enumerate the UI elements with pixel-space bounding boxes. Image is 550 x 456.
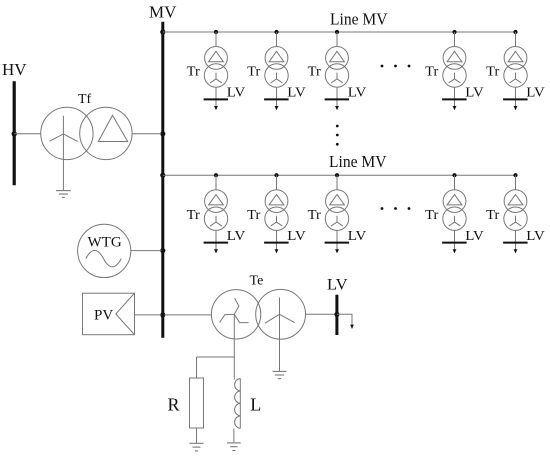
svg-text:Tr: Tr: [247, 65, 261, 80]
transformer Tr1-4 primary winding (delta): [443, 47, 466, 70]
ellipsis dots feeder 1: [381, 65, 411, 68]
photovoltaic PV inverter box: [83, 293, 135, 335]
junction node Tr1-1 on line: [214, 30, 218, 34]
load arrow of Tr2-5: [514, 249, 518, 253]
junction node Tr1-2 on line: [274, 30, 278, 34]
inductor L coil: [235, 379, 241, 429]
transformer Tr2-4 primary winding (delta): [443, 190, 466, 213]
node MV bus / PV and Te: [160, 312, 165, 317]
load arrow at LV bus: [350, 325, 354, 329]
transformer Tr1-5 secondary winding (wye): [504, 64, 527, 87]
wire from line to transformer Tr1-3: [336, 32, 338, 47]
wire from line to transformer Tr2-5: [515, 175, 517, 190]
wire down to resistor R: [196, 357, 198, 378]
wire MV bus to Te: [164, 314, 211, 316]
svg-text:Tr: Tr: [486, 65, 500, 80]
load arrow of Tr1-3: [335, 106, 339, 110]
svg-text:R: R: [168, 394, 180, 414]
MV busbar: [161, 22, 164, 338]
svg-text:Tr: Tr: [308, 208, 322, 223]
load arrow of Tr1-5: [514, 106, 518, 110]
load arrow of Tr1-4: [453, 106, 457, 110]
feeder line 2 (Line MV): [163, 174, 516, 176]
svg-text:Tr: Tr: [425, 208, 439, 223]
node MV bus / line 1: [160, 29, 165, 34]
HV busbar: [13, 81, 16, 185]
junction node Tr2-3 on line: [335, 173, 339, 177]
junction node Tr2-4 on line: [452, 173, 456, 177]
transformer Tr2-1 primary winding (delta): [205, 190, 228, 213]
LV busbar of Tr1-5: [503, 98, 527, 100]
transformer Tf primary circle (wye): [41, 107, 93, 159]
ellipsis dots feeder 2: [381, 207, 411, 210]
load arrow of Tr2-3: [335, 249, 339, 253]
wire transformer Tr2-2 to LV bar and load arrow: [276, 230, 278, 250]
Tf neutral wire to ground: [62, 134, 64, 191]
node MV bus / Tf: [160, 131, 165, 136]
wire resistor R to ground: [196, 428, 198, 443]
svg-text:LV: LV: [526, 228, 545, 243]
transformer Tr2-5 secondary winding (wye): [504, 207, 527, 230]
svg-text:LV: LV: [348, 228, 367, 243]
transformer Tr2-1 secondary winding (wye): [204, 207, 227, 230]
LV busbar of Tr2-1: [204, 242, 229, 244]
junction node Tr1-4 on line: [452, 30, 456, 34]
load arrow of Tr2-2: [275, 249, 279, 253]
svg-text:LV: LV: [227, 85, 246, 100]
junction node Tr2-2 on line: [274, 173, 278, 177]
LV busbar of Tr2-4: [442, 242, 467, 244]
LV busbar of Tr1-1: [204, 98, 229, 100]
wire WTG to MV bus: [131, 250, 162, 252]
node MV bus / WTG: [160, 248, 165, 253]
svg-text:WTG: WTG: [88, 234, 122, 250]
LV busbar of Tr2-3: [325, 242, 350, 244]
svg-text:HV: HV: [2, 60, 27, 79]
svg-text:LV: LV: [327, 276, 348, 293]
wire from line to transformer Tr1-2: [276, 32, 278, 47]
LV busbar of Tr1-4: [442, 98, 467, 100]
junction node Tr1-3 on line: [335, 30, 339, 34]
feeder line 1 (Line MV): [163, 31, 516, 33]
wire Tf to MV bus: [132, 133, 161, 135]
svg-text:PV: PV: [94, 307, 113, 323]
transformer Tr2-3 secondary winding (wye): [325, 207, 348, 230]
transformer Tr2-2 secondary winding (wye): [265, 207, 288, 230]
wire from line to transformer Tr1-5: [515, 32, 517, 47]
transformer Tr1-3 primary winding (delta): [326, 47, 349, 70]
svg-text:MV: MV: [149, 3, 177, 22]
transformer Tf secondary circle (delta): [80, 107, 132, 159]
svg-text:Tr: Tr: [425, 65, 439, 80]
svg-text:Te: Te: [250, 274, 264, 289]
transformer Tr1-2 secondary winding (wye): [265, 64, 288, 87]
LV busbar of Tr2-2: [264, 242, 289, 244]
transformer Tr2-4 secondary winding (wye): [443, 207, 466, 230]
vertical ellipsis between feeders: [336, 125, 339, 146]
ground Te neutral: [273, 371, 287, 378]
wire transformer Tr2-1 to LV bar and load arrow: [215, 230, 217, 250]
transformer Tr1-3 secondary winding (wye): [325, 64, 348, 87]
svg-text:LV: LV: [465, 228, 484, 243]
wire transformer Tr2-5 to LV bar and load arrow: [515, 230, 517, 250]
Te secondary neutral wire to ground: [279, 314, 281, 371]
LV busbar of Tr2-5: [503, 242, 527, 244]
transformer Tr2-3 primary winding (delta): [326, 190, 349, 213]
wire transformer Tr1-1 to LV bar and load arrow: [215, 87, 217, 107]
wire from line to transformer Tr2-1: [215, 175, 217, 190]
transformer Tr2-2 primary winding (delta): [265, 190, 288, 213]
wire LV bus to load arrow: [337, 314, 352, 325]
wire from line to transformer Tr1-4: [454, 32, 456, 47]
wire inductor L to ground: [233, 429, 235, 443]
LV busbar: [335, 295, 338, 335]
wire transformer Tr2-4 to LV bar and load arrow: [454, 230, 456, 250]
wire transformer Tr1-2 to LV bar and load arrow: [276, 87, 278, 107]
wire PV to MV bus: [135, 314, 161, 316]
svg-text:Tr: Tr: [247, 208, 261, 223]
wire from line to transformer Tr2-4: [454, 175, 456, 190]
svg-text:LV: LV: [227, 228, 246, 243]
svg-text:Tf: Tf: [78, 92, 92, 107]
svg-text:LV: LV: [287, 228, 306, 243]
load arrow of Tr2-4: [453, 249, 457, 253]
node on HV bus: [12, 131, 17, 136]
wire HV bus to Tf: [14, 133, 41, 135]
wire Te to LV bus: [306, 313, 336, 315]
transformer Te secondary circle (wye): [256, 289, 306, 339]
LV busbar of Tr1-2: [264, 98, 289, 100]
svg-text:Tr: Tr: [486, 208, 500, 223]
LV busbar of Tr1-3: [325, 98, 350, 100]
transformer Tr1-4 secondary winding (wye): [443, 64, 466, 87]
transformer Tr1-1 secondary winding (wye): [204, 64, 227, 87]
wire transformer Tr1-3 to LV bar and load arrow: [336, 87, 338, 107]
svg-text:Tr: Tr: [187, 65, 201, 80]
node MV bus / line 2: [160, 173, 165, 178]
svg-text:LV: LV: [287, 85, 306, 100]
transformer Tr1-1 primary winding (delta): [205, 47, 228, 70]
ground Tf neutral: [56, 191, 71, 198]
wire transformer Tr1-5 to LV bar and load arrow: [515, 87, 517, 107]
node LV bus: [334, 312, 339, 317]
svg-text:Line MV: Line MV: [329, 152, 387, 171]
svg-text:LV: LV: [526, 85, 545, 100]
wire from line to transformer Tr2-3: [336, 175, 338, 190]
transformer Tr1-2 primary winding (delta): [265, 47, 288, 70]
svg-text:L: L: [250, 394, 261, 414]
transformer Te primary circle (zigzag): [211, 290, 260, 339]
junction node Tr2-1 on line: [214, 173, 218, 177]
wire transformer Tr1-4 to LV bar and load arrow: [454, 87, 456, 107]
svg-text:Tr: Tr: [187, 208, 201, 223]
junction node Tr2-5 on line: [513, 173, 517, 177]
junction node Tr1-5 on line: [513, 30, 517, 34]
ground below R: [190, 443, 204, 451]
load arrow of Tr1-2: [275, 106, 279, 110]
wire filter junction down to inductor L: [233, 357, 235, 380]
wire filter top horizontal: [197, 356, 235, 358]
svg-text:Tr: Tr: [308, 65, 322, 80]
svg-text:LV: LV: [348, 85, 367, 100]
ground below L: [227, 443, 241, 451]
svg-text:Line MV: Line MV: [330, 10, 388, 29]
load arrow of Tr2-1: [214, 249, 218, 253]
transformer Tr2-5 primary winding (delta): [504, 190, 527, 213]
wire transformer Tr2-3 to LV bar and load arrow: [336, 230, 338, 250]
wind turbine generator WTG: [78, 224, 131, 277]
wire from line to transformer Tr1-1: [215, 32, 217, 47]
transformer Tr1-5 primary winding (delta): [504, 47, 527, 70]
load arrow of Tr1-1: [214, 106, 218, 110]
Te primary neutral wire down to filter: [233, 314, 235, 357]
svg-text:LV: LV: [465, 85, 484, 100]
wire from line to transformer Tr2-2: [276, 175, 278, 190]
resistor R: [190, 378, 204, 428]
